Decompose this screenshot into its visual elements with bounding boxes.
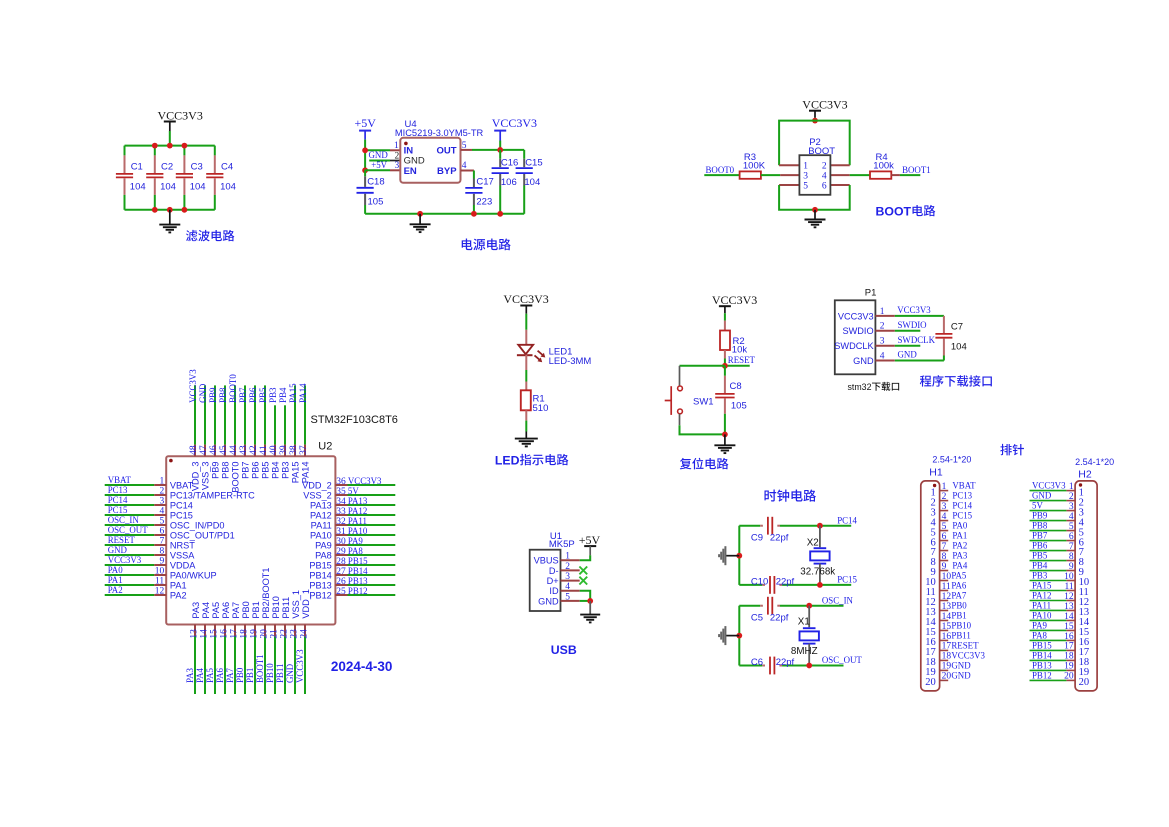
wire VCC3V3 to BOOT top rail xyxy=(814,118,816,121)
svg-text:PC14: PC14 xyxy=(170,501,193,511)
pin 1 stub H1 xyxy=(940,490,949,492)
pin 35 stub U2 xyxy=(335,494,347,496)
svg-text:29: 29 xyxy=(336,547,346,557)
junction xyxy=(167,143,173,149)
svg-text:6: 6 xyxy=(1069,532,1074,542)
pin 24 stub U2 xyxy=(304,625,306,637)
wire net PB14 (H2 pin 18) xyxy=(1030,659,1067,661)
capacitor C7 104 xyxy=(935,316,966,361)
junction xyxy=(182,143,188,149)
svg-text:PA9: PA9 xyxy=(1032,621,1048,631)
pin 1 stub H2 xyxy=(1066,490,1075,492)
svg-text:1: 1 xyxy=(394,141,399,151)
svg-text:104: 104 xyxy=(220,182,236,193)
pin 17 stub H1 xyxy=(940,649,949,651)
svg-text:104: 104 xyxy=(130,182,146,193)
wire net OSC_IN (U2 pin 5) xyxy=(105,524,155,526)
wire GND elbow xyxy=(580,600,591,602)
svg-text:PA3: PA3 xyxy=(952,551,968,561)
svg-text:SWDCLK: SWDCLK xyxy=(834,341,874,351)
svg-text:C3: C3 xyxy=(191,161,203,172)
svg-text:VCC3V3: VCC3V3 xyxy=(158,108,203,122)
wire net PB0 (U2 pin 18) xyxy=(244,636,246,694)
svg-text:OSC_IN: OSC_IN xyxy=(108,515,140,525)
pin 13 stub H2 xyxy=(1066,609,1075,611)
svg-text:PA11: PA11 xyxy=(1032,601,1051,611)
svg-text:223: 223 xyxy=(476,196,492,207)
svg-text:PB11: PB11 xyxy=(275,664,285,683)
svg-text:104: 104 xyxy=(190,182,206,193)
wire net PA15 (U2 pin 38) xyxy=(294,385,296,444)
pin 19 stub H1 xyxy=(940,669,949,671)
svg-text:PB11: PB11 xyxy=(951,631,970,641)
svg-text:PA2: PA2 xyxy=(952,541,967,551)
svg-text:BOOT: BOOT xyxy=(808,146,835,157)
pin 44 stub U2 xyxy=(234,445,236,457)
svg-text:LED: LED xyxy=(495,453,520,467)
svg-text:PB1: PB1 xyxy=(251,601,261,618)
label 排针 xyxy=(1000,444,1024,455)
wire switch top (gray) xyxy=(679,366,681,386)
pin 5 stub U1 xyxy=(561,600,580,602)
wire switch bottom (gray) xyxy=(679,414,681,425)
svg-text:PA7: PA7 xyxy=(225,667,235,683)
switch SW1 xyxy=(665,386,714,415)
svg-text:PA6: PA6 xyxy=(215,667,225,683)
svg-text:PA10: PA10 xyxy=(348,526,368,536)
wire VCC3V3 (P1 pin1) xyxy=(895,315,944,317)
svg-text:1: 1 xyxy=(880,307,885,317)
svg-text:106: 106 xyxy=(501,177,517,188)
ground arrow (top pair) xyxy=(719,546,739,565)
label 时钟电路 xyxy=(764,489,816,501)
svg-text:1: 1 xyxy=(159,476,164,486)
LED light arrows xyxy=(535,351,546,363)
svg-text:2.54-1*20: 2.54-1*20 xyxy=(1075,457,1114,467)
svg-text:PA12: PA12 xyxy=(310,511,332,521)
wire net PB12 (H2 pin 20) xyxy=(1030,679,1067,681)
pin 19 stub H2 xyxy=(1066,669,1075,671)
junction xyxy=(497,211,503,217)
svg-text:MIC5219-3.0YM5-TR: MIC5219-3.0YM5-TR xyxy=(395,128,484,138)
pin 10 stub H1 xyxy=(940,580,949,582)
svg-text:6: 6 xyxy=(159,526,164,536)
svg-text:PB4: PB4 xyxy=(270,462,280,479)
svg-text:39: 39 xyxy=(279,445,289,455)
junction xyxy=(152,207,158,213)
pin 17 stub U2 xyxy=(234,625,236,637)
svg-text:18: 18 xyxy=(942,652,952,662)
svg-text:47: 47 xyxy=(199,445,209,455)
svg-text:2024-4-30: 2024-4-30 xyxy=(331,659,393,674)
svg-text:VSSA: VSSA xyxy=(170,551,195,561)
svg-text:6: 6 xyxy=(822,181,827,191)
pin 4 stub H2 xyxy=(1066,520,1075,522)
svg-text:PA5: PA5 xyxy=(951,571,967,581)
svg-text:5: 5 xyxy=(1069,522,1074,532)
junction xyxy=(806,663,812,669)
svg-text:20: 20 xyxy=(1079,677,1090,688)
svg-text:PB3: PB3 xyxy=(280,462,290,479)
wire net PA9 (H2 pin 15) xyxy=(1030,629,1067,631)
svg-text:PB0: PB0 xyxy=(951,601,967,611)
wire pin1 IN xyxy=(365,149,390,151)
wire net PA0 (U2 pin 10) xyxy=(105,574,155,576)
pin 16 stub U2 xyxy=(224,625,226,637)
svg-text:PA2: PA2 xyxy=(108,585,123,595)
MCU U2 body xyxy=(166,456,335,624)
pin 3 stub U4 xyxy=(390,169,400,171)
capacitor C1 104 xyxy=(116,146,146,210)
svg-text:C8: C8 xyxy=(730,381,742,392)
resistor R2 10k xyxy=(720,331,747,356)
svg-text:VBAT: VBAT xyxy=(108,475,132,485)
pin 28 stub U2 xyxy=(335,564,347,566)
resistor R1 510 xyxy=(521,390,549,414)
svg-text:PB6: PB6 xyxy=(1032,541,1048,551)
label 复位电路 xyxy=(680,458,729,470)
wire filter bottom rail xyxy=(125,209,215,211)
svg-text:PB7: PB7 xyxy=(238,387,248,403)
svg-text:32: 32 xyxy=(336,517,346,527)
pin 32 stub U2 xyxy=(335,524,347,526)
svg-text:46: 46 xyxy=(209,445,219,455)
svg-text:PB4: PB4 xyxy=(1032,561,1048,571)
svg-text:ID: ID xyxy=(549,586,559,596)
connector U1 MK5P body xyxy=(530,550,561,611)
svg-text:5: 5 xyxy=(565,592,570,602)
svg-text:PA1: PA1 xyxy=(952,531,967,541)
pin 22 stub U2 xyxy=(284,625,286,637)
svg-text:PB4: PB4 xyxy=(278,387,288,403)
svg-text:BOOT0: BOOT0 xyxy=(228,374,238,403)
svg-text:12: 12 xyxy=(942,592,952,602)
svg-text:7: 7 xyxy=(1069,542,1074,552)
wire PC15 xyxy=(739,584,851,586)
pin 41 stub U2 xyxy=(264,445,266,457)
pin 14 stub H1 xyxy=(940,619,949,621)
svg-text:3: 3 xyxy=(159,496,164,506)
svg-text:OSC_IN/PD0: OSC_IN/PD0 xyxy=(170,521,225,531)
svg-text:17: 17 xyxy=(1064,642,1074,652)
svg-text:SWDIO: SWDIO xyxy=(842,326,873,336)
svg-text:9: 9 xyxy=(159,556,164,566)
wire net PA13 (U2 pin 34) xyxy=(348,504,396,506)
svg-text:PB5: PB5 xyxy=(260,462,270,479)
svg-text:PA3: PA3 xyxy=(191,602,201,619)
pin 3 stub P2 xyxy=(780,174,799,176)
wire net PB4 (U2 pin 39) xyxy=(284,405,286,444)
wire net PB5 (H2 pin 8) xyxy=(1030,560,1067,562)
wire net PA1 (U2 pin 11) xyxy=(105,584,155,586)
capacitor C6 22pf xyxy=(751,657,795,675)
svg-text:PA4: PA4 xyxy=(195,667,205,683)
label 电源电路 xyxy=(462,238,511,250)
svg-text:2: 2 xyxy=(942,492,947,502)
svg-text:12: 12 xyxy=(155,586,165,596)
svg-text:28: 28 xyxy=(336,557,346,567)
ground (BOOT) xyxy=(805,210,826,228)
header H1 body xyxy=(921,481,940,691)
svg-text:PB0: PB0 xyxy=(235,667,245,683)
svg-text:9: 9 xyxy=(1069,562,1074,572)
wire left vertical (bottom pair) xyxy=(738,606,740,666)
pin 2 stub H1 xyxy=(940,500,949,502)
svg-text:2: 2 xyxy=(1069,492,1074,502)
svg-text:PB12: PB12 xyxy=(309,591,331,601)
capacitor C2 104 xyxy=(146,146,176,210)
svg-text:GND: GND xyxy=(369,150,389,160)
svg-text:104: 104 xyxy=(524,177,540,188)
svg-text:42: 42 xyxy=(249,445,259,455)
pin 48 stub U2 xyxy=(194,445,196,457)
pin 43 stub U2 xyxy=(244,445,246,457)
resistor R1 bottom lead xyxy=(525,410,527,420)
wire net PB13 (H2 pin 19) xyxy=(1030,669,1067,671)
svg-text:PA9: PA9 xyxy=(348,536,364,546)
svg-text:VCC3V3: VCC3V3 xyxy=(838,311,874,321)
pin 25 stub U2 xyxy=(335,594,347,596)
svg-text:105: 105 xyxy=(368,196,384,207)
pin 13 stub H1 xyxy=(940,609,949,611)
pin 36 stub U2 xyxy=(335,484,347,486)
svg-text:GND: GND xyxy=(853,356,874,366)
wire net PB8 (U2 pin 45) xyxy=(224,385,226,444)
wire net VCC3V3 (U2 pin 36) xyxy=(348,484,396,486)
junction xyxy=(167,207,173,213)
svg-text:33: 33 xyxy=(336,507,346,517)
ground (power) xyxy=(410,214,431,232)
svg-text:GND: GND xyxy=(1032,491,1052,501)
svg-text:4: 4 xyxy=(462,161,467,171)
svg-text:5V: 5V xyxy=(1032,501,1043,511)
svg-text:41: 41 xyxy=(259,445,269,455)
LED cathode lead xyxy=(525,355,527,370)
svg-text:VCC3V3: VCC3V3 xyxy=(348,476,382,486)
wire GND (P1 pin4) xyxy=(895,360,944,362)
svg-text:105: 105 xyxy=(731,401,747,412)
capacitor C17 223 xyxy=(465,171,494,214)
svg-text:RESET: RESET xyxy=(728,355,756,365)
junction xyxy=(362,167,368,173)
svg-text:PC13: PC13 xyxy=(952,491,972,501)
junction xyxy=(736,633,742,639)
svg-text:10: 10 xyxy=(155,566,165,576)
svg-text:BOOT0: BOOT0 xyxy=(706,165,735,175)
svg-text:EN: EN xyxy=(404,166,417,177)
svg-text:PA15: PA15 xyxy=(1032,581,1052,591)
svg-text:26: 26 xyxy=(336,577,346,587)
svg-text:20: 20 xyxy=(259,629,269,639)
svg-text:RESET: RESET xyxy=(108,535,136,545)
svg-text:24: 24 xyxy=(299,629,309,639)
ground (reset) xyxy=(714,434,735,453)
wire net PA10 (H2 pin 14) xyxy=(1030,619,1067,621)
wire pin2 GND xyxy=(369,160,390,162)
svg-text:VCC3V3: VCC3V3 xyxy=(503,292,548,306)
svg-text:C5: C5 xyxy=(751,613,763,624)
svg-text:MK5P: MK5P xyxy=(549,539,575,550)
pin 23 stub U2 xyxy=(294,625,296,637)
pin 11 stub H1 xyxy=(940,590,949,592)
svg-text:P1: P1 xyxy=(865,287,877,298)
header H2 body xyxy=(1075,481,1097,691)
svg-text:PA1: PA1 xyxy=(108,575,123,585)
pin 18 stub H1 xyxy=(940,659,949,661)
label stm32下载口 xyxy=(848,382,900,392)
pin 27 stub U2 xyxy=(335,574,347,576)
svg-text:11: 11 xyxy=(155,576,164,586)
svg-text:22: 22 xyxy=(279,629,289,639)
wire net PC14 (U2 pin 3) xyxy=(105,504,155,506)
label USB xyxy=(551,643,577,657)
pin 6 stub H2 xyxy=(1066,540,1075,542)
svg-text:PB13: PB13 xyxy=(1032,661,1052,671)
svg-text:22pf: 22pf xyxy=(770,613,789,624)
wire net BOOT0 (U2 pin 44) xyxy=(234,385,236,444)
pin 30 stub U2 xyxy=(335,544,347,546)
svg-text:32.768k: 32.768k xyxy=(800,567,835,578)
svg-text:GND: GND xyxy=(538,596,559,606)
pin 20 stub H2 xyxy=(1066,679,1075,681)
pin 9 stub H1 xyxy=(940,570,949,572)
svg-text:27: 27 xyxy=(336,567,346,577)
svg-text:C9: C9 xyxy=(751,533,763,544)
svg-text:VCC3V3: VCC3V3 xyxy=(492,116,537,130)
svg-text:OUT: OUT xyxy=(437,145,457,156)
connector P1 body xyxy=(835,300,876,374)
svg-text:H2: H2 xyxy=(1078,469,1092,481)
wire R2 to RESET node xyxy=(724,359,726,366)
svg-text:PA15: PA15 xyxy=(288,383,298,403)
capacitor C10 22pf xyxy=(751,576,795,594)
pin 4 stub P1 xyxy=(875,360,894,362)
pin 5 stub U4 OUT xyxy=(461,149,473,151)
svg-text:7: 7 xyxy=(942,542,947,552)
svg-text:8: 8 xyxy=(159,546,164,556)
svg-text:PC15: PC15 xyxy=(837,575,857,585)
svg-text:PA13: PA13 xyxy=(348,496,368,506)
svg-text:PC14: PC14 xyxy=(108,495,128,505)
svg-text:PB8: PB8 xyxy=(218,387,228,403)
header P2 BOOT body xyxy=(799,155,830,195)
pin 2 stub U4 (black) xyxy=(390,160,400,162)
power symbol +5V (regulator input) xyxy=(355,116,377,139)
svg-text:PA6: PA6 xyxy=(221,602,231,619)
svg-text:X2: X2 xyxy=(807,537,819,548)
svg-text:PA2: PA2 xyxy=(170,591,187,601)
pin 14 stub H2 xyxy=(1066,619,1075,621)
capacitor C18 105 xyxy=(357,170,385,214)
wire VCC3V3 stem to OUT xyxy=(499,141,501,150)
svg-text:PB6: PB6 xyxy=(248,387,258,403)
pin 1 stub U4 xyxy=(390,149,400,151)
svg-text:GND: GND xyxy=(951,671,971,681)
pin 16 stub H2 xyxy=(1066,639,1075,641)
svg-text:PB3: PB3 xyxy=(268,387,278,403)
ground (filter) xyxy=(159,210,180,233)
svg-text:PA14: PA14 xyxy=(298,383,308,403)
svg-text:D-: D- xyxy=(549,566,559,576)
svg-text:4: 4 xyxy=(942,512,947,522)
svg-text:22pf: 22pf xyxy=(770,533,789,544)
wire net PA11 (H2 pin 13) xyxy=(1030,609,1067,611)
svg-text:OSC_OUT/PD1: OSC_OUT/PD1 xyxy=(170,531,235,541)
pin 4 stub U1 xyxy=(561,590,580,592)
pin 4 stub H1 xyxy=(940,520,949,522)
svg-text:4: 4 xyxy=(565,582,570,592)
wire switch to bottom rail xyxy=(680,425,725,434)
svg-text:2: 2 xyxy=(822,162,827,172)
svg-text:PA8: PA8 xyxy=(1032,631,1048,641)
junction xyxy=(722,363,728,369)
svg-text:PA8: PA8 xyxy=(315,551,332,561)
svg-text:PB7: PB7 xyxy=(1032,531,1048,541)
wire net PB3 (H2 pin 10) xyxy=(1030,580,1067,582)
svg-text:PA3: PA3 xyxy=(185,667,195,683)
svg-text:36: 36 xyxy=(336,477,346,487)
wire net PB6 (H2 pin 7) xyxy=(1030,550,1067,552)
svg-text:PC14: PC14 xyxy=(837,515,857,525)
pin 21 stub U2 xyxy=(274,625,276,637)
svg-text:13: 13 xyxy=(189,629,199,639)
svg-text:BOOT0: BOOT0 xyxy=(230,462,240,493)
svg-text:PB5: PB5 xyxy=(1032,551,1048,561)
svg-text:C1: C1 xyxy=(131,161,143,172)
svg-text:PB5: PB5 xyxy=(258,387,268,403)
wire net PB7 (H2 pin 6) xyxy=(1030,540,1067,542)
pin 1 stub P1 xyxy=(875,315,894,317)
pin 7 stub H2 xyxy=(1066,550,1075,552)
crystal X1 8MHZ xyxy=(791,606,819,666)
wire VCC3V3 stem to top rail xyxy=(169,131,171,146)
junction xyxy=(812,207,818,213)
svg-text:PA9: PA9 xyxy=(315,541,332,551)
pin 19 stub U2 xyxy=(254,625,256,637)
svg-text:OSC_OUT: OSC_OUT xyxy=(822,655,863,665)
pin 12 stub H1 xyxy=(940,599,949,601)
capacitor C16 106 xyxy=(492,150,519,214)
pin 10 stub H2 xyxy=(1066,580,1075,582)
label 滤波电路 xyxy=(186,230,235,242)
svg-text:PA7: PA7 xyxy=(951,591,967,601)
svg-text:4: 4 xyxy=(880,351,885,361)
svg-text:VCC3V3: VCC3V3 xyxy=(108,555,142,565)
pin 3 stub U1 xyxy=(561,580,580,582)
pin 20 stub U2 xyxy=(264,625,266,637)
wire net PA12 (U2 pin 33) xyxy=(348,514,396,516)
pin 5 stub P2 xyxy=(779,184,799,186)
svg-text:C2: C2 xyxy=(161,161,173,172)
pin 2 stub P1 xyxy=(875,330,894,332)
junction xyxy=(812,118,818,124)
junction xyxy=(182,207,188,213)
svg-text:GND: GND xyxy=(285,663,295,683)
svg-text:5: 5 xyxy=(803,181,808,191)
svg-text:GND: GND xyxy=(198,383,208,403)
pin 16 stub H1 xyxy=(940,639,949,641)
svg-text:5V: 5V xyxy=(348,486,359,496)
svg-text:25: 25 xyxy=(336,587,346,597)
svg-text:PC14: PC14 xyxy=(952,501,972,511)
svg-text:PC13/TAMPER-RTC: PC13/TAMPER-RTC xyxy=(170,491,255,501)
wire net GND (H2 pin 2) xyxy=(1030,500,1067,502)
svg-text:PA6: PA6 xyxy=(951,581,967,591)
svg-text:18: 18 xyxy=(1064,652,1074,662)
svg-text:PA4: PA4 xyxy=(201,602,211,619)
wire net PB7 (U2 pin 43) xyxy=(244,385,246,444)
pin 33 stub U2 xyxy=(335,514,347,516)
